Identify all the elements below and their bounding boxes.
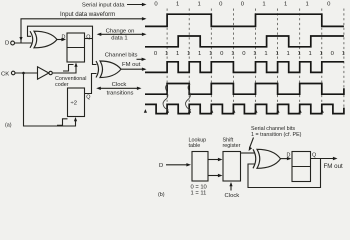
svg-text:1: 1 xyxy=(320,51,323,57)
svg-text:1: 1 xyxy=(342,51,345,57)
svg-text:Serial input data: Serial input data xyxy=(82,2,125,8)
svg-text:coder: coder xyxy=(55,82,69,88)
svg-text:transitions: transitions xyxy=(107,90,134,96)
svg-text:Q: Q xyxy=(86,94,90,100)
svg-text:data 1: data 1 xyxy=(111,35,127,41)
svg-text:Change on: Change on xyxy=(106,28,135,34)
svg-text:1 = transition (cf. PE): 1 = transition (cf. PE) xyxy=(251,132,302,138)
svg-text:1: 1 xyxy=(209,51,212,57)
svg-text:1: 1 xyxy=(297,51,300,57)
svg-text:FM out: FM out xyxy=(324,163,344,170)
svg-text:Q: Q xyxy=(312,153,316,159)
svg-text:1: 1 xyxy=(176,51,179,57)
svg-text:CK: CK xyxy=(1,71,9,77)
svg-text:table: table xyxy=(189,143,201,149)
svg-text:1: 1 xyxy=(286,51,289,57)
svg-text:Input data waveform: Input data waveform xyxy=(60,11,115,18)
svg-text:1: 1 xyxy=(262,1,265,7)
svg-text:1: 1 xyxy=(264,51,267,57)
svg-text:1: 1 xyxy=(176,1,179,7)
svg-text:Clock: Clock xyxy=(225,193,240,199)
svg-text:1 = 11: 1 = 11 xyxy=(191,191,207,197)
svg-text:1: 1 xyxy=(231,51,234,57)
svg-text:FM out: FM out xyxy=(122,62,141,68)
svg-text:Q: Q xyxy=(86,35,90,41)
svg-text:D: D xyxy=(62,35,66,41)
svg-text:(b): (b) xyxy=(158,192,165,198)
svg-text:÷2: ÷2 xyxy=(71,101,78,107)
svg-text:Channel bits: Channel bits xyxy=(105,53,138,59)
svg-text:1: 1 xyxy=(275,51,278,57)
svg-text:1: 1 xyxy=(198,51,201,57)
svg-text:D: D xyxy=(159,163,163,169)
svg-text:D: D xyxy=(5,40,9,46)
svg-text:D: D xyxy=(287,153,291,159)
svg-text:1: 1 xyxy=(165,51,168,57)
svg-text:Clock: Clock xyxy=(112,82,127,88)
svg-text:1: 1 xyxy=(187,51,190,57)
svg-text:register: register xyxy=(223,143,241,149)
svg-text:1: 1 xyxy=(284,1,287,7)
svg-text:1: 1 xyxy=(309,51,312,57)
svg-text:1: 1 xyxy=(306,1,309,7)
svg-text:1: 1 xyxy=(253,51,256,57)
svg-text:(a): (a) xyxy=(5,123,12,129)
svg-text:1: 1 xyxy=(198,1,201,7)
